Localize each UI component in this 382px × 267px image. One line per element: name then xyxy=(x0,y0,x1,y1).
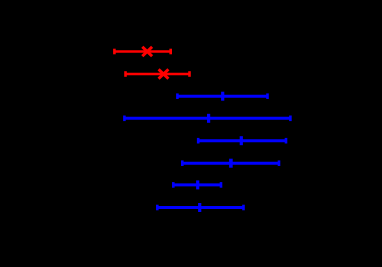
blue error bar 3 xyxy=(198,136,286,145)
blue error bar 5 xyxy=(173,180,221,189)
blue error bar 6 xyxy=(157,203,243,212)
blue error bar 1 xyxy=(177,92,267,101)
blue error bar 2 xyxy=(124,114,290,123)
red error bar 2 xyxy=(126,69,190,78)
red error bar 1 xyxy=(114,47,170,56)
blue error bar 4 xyxy=(182,159,279,168)
